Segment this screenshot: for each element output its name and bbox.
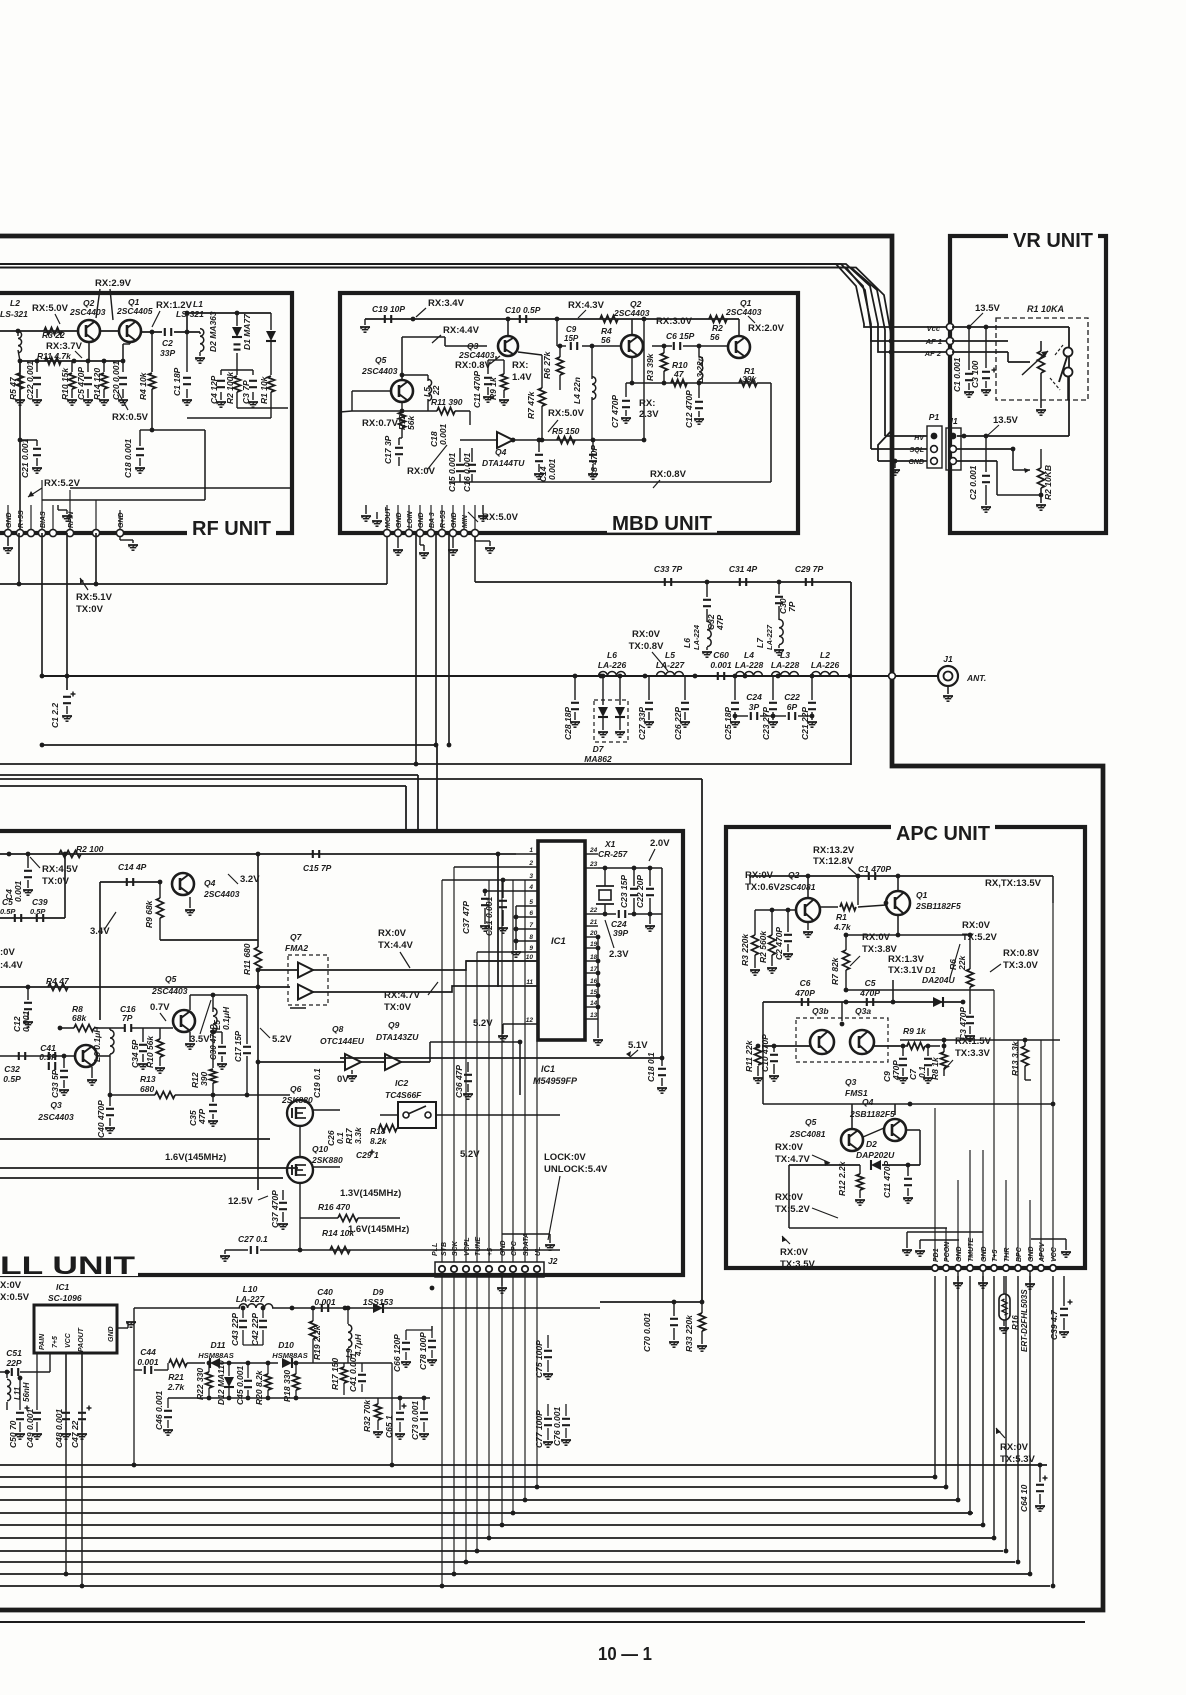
svg-text:C27 0.1: C27 0.1 bbox=[238, 1234, 268, 1244]
svg-text:R7 47k: R7 47k bbox=[526, 390, 536, 419]
svg-text:R14 120: R14 120 bbox=[92, 368, 102, 400]
svg-text:R13: R13 bbox=[140, 1074, 156, 1084]
svg-text:0.001: 0.001 bbox=[547, 458, 557, 480]
svg-text:R+5S: R+5S bbox=[440, 510, 447, 528]
svg-text:10: 10 bbox=[526, 954, 534, 961]
svg-text:C75 100P: C75 100P bbox=[534, 1340, 544, 1378]
svg-text:22P: 22P bbox=[5, 1358, 21, 1368]
svg-text:RX:0V: RX:0V bbox=[407, 466, 436, 477]
svg-text:C22: C22 bbox=[784, 692, 800, 702]
svg-text:R1 10KA: R1 10KA bbox=[1027, 304, 1064, 314]
svg-text:1.4V: 1.4V bbox=[512, 372, 532, 383]
svg-text:J2: J2 bbox=[548, 1256, 558, 1266]
svg-text:TX:12.8V: TX:12.8V bbox=[813, 856, 854, 867]
svg-text:C43 22P: C43 22P bbox=[230, 1313, 240, 1346]
svg-text:8: 8 bbox=[529, 934, 533, 941]
svg-text:12.5V: 12.5V bbox=[228, 1196, 253, 1207]
svg-text:RX:13.2V: RX:13.2V bbox=[813, 845, 855, 856]
svg-text:D9: D9 bbox=[373, 1287, 384, 1297]
svg-text:L4 22n: L4 22n bbox=[572, 377, 582, 404]
svg-text:R20 8.2k: R20 8.2k bbox=[254, 1369, 264, 1405]
svg-text:RX:0V: RX:0V bbox=[775, 1142, 804, 1153]
svg-text:LS-321: LS-321 bbox=[176, 309, 204, 319]
svg-text:HSM88AS: HSM88AS bbox=[198, 1351, 233, 1360]
svg-text:THR: THR bbox=[1004, 1248, 1011, 1262]
svg-text:RX:5.0V: RX:5.0V bbox=[32, 303, 69, 314]
svg-text:LOCK:0V: LOCK:0V bbox=[544, 1152, 586, 1163]
svg-text:C6: C6 bbox=[800, 978, 811, 988]
svg-text:Q2: Q2 bbox=[788, 870, 800, 880]
svg-text:PAIN: PAIN bbox=[39, 1333, 46, 1350]
svg-text:22: 22 bbox=[431, 385, 441, 396]
svg-text:2.3V: 2.3V bbox=[609, 949, 629, 960]
svg-text:13.5V: 13.5V bbox=[975, 303, 1000, 314]
svg-text:2SC4081: 2SC4081 bbox=[789, 1129, 826, 1139]
svg-text:RX:5.0V: RX:5.0V bbox=[482, 512, 519, 523]
svg-text:5.2V: 5.2V bbox=[473, 1018, 493, 1029]
svg-text:Q3: Q3 bbox=[845, 1077, 857, 1087]
svg-text:C48 0.001: C48 0.001 bbox=[54, 1409, 64, 1448]
svg-text:RF UNIT: RF UNIT bbox=[192, 518, 271, 540]
svg-text:LA-227: LA-227 bbox=[765, 624, 774, 650]
svg-text:C18 0.001: C18 0.001 bbox=[123, 439, 133, 478]
svg-text:IC1: IC1 bbox=[56, 1282, 70, 1292]
svg-text:Q3a: Q3a bbox=[855, 1006, 871, 1016]
svg-text::4.4V: :4.4V bbox=[0, 960, 23, 971]
svg-text:+5: +5 bbox=[487, 1248, 494, 1256]
svg-text:GND: GND bbox=[981, 1246, 988, 1262]
svg-text:2.7k: 2.7k bbox=[167, 1382, 186, 1392]
svg-text:C17 15P: C17 15P bbox=[234, 1030, 243, 1062]
svg-text:L5: L5 bbox=[665, 650, 675, 660]
svg-text:0.7V: 0.7V bbox=[150, 1002, 170, 1013]
svg-text:2.0V: 2.0V bbox=[650, 838, 670, 849]
svg-text:0.001: 0.001 bbox=[438, 423, 448, 445]
svg-text:680: 680 bbox=[140, 1084, 154, 1094]
svg-text:P1: P1 bbox=[929, 412, 940, 422]
svg-text:C4 12P: C4 12P bbox=[209, 375, 219, 404]
svg-text:39P: 39P bbox=[613, 928, 628, 938]
svg-text:R33 220k: R33 220k bbox=[684, 1314, 694, 1352]
svg-text:2: 2 bbox=[528, 860, 533, 867]
svg-text:L2: L2 bbox=[820, 650, 830, 660]
svg-text:TX:5.2V: TX:5.2V bbox=[775, 1204, 811, 1215]
svg-text:C37 470P: C37 470P bbox=[270, 1190, 280, 1228]
svg-text:C17 3P: C17 3P bbox=[383, 435, 393, 464]
svg-text:2SC4403: 2SC4403 bbox=[37, 1112, 74, 1122]
svg-text:22: 22 bbox=[589, 907, 598, 914]
svg-text:11: 11 bbox=[526, 979, 533, 986]
svg-text:T+5: T+5 bbox=[992, 1250, 999, 1262]
svg-text:AF 2: AF 2 bbox=[924, 349, 942, 358]
svg-text:RX:2.9V: RX:2.9V bbox=[95, 278, 132, 289]
svg-text:R16 470: R16 470 bbox=[318, 1202, 350, 1212]
svg-text:RX:0.7V: RX:0.7V bbox=[362, 418, 399, 429]
svg-text:8.2k: 8.2k bbox=[370, 1136, 388, 1146]
svg-text:10 — 1: 10 — 1 bbox=[598, 1644, 652, 1664]
svg-text:9: 9 bbox=[529, 945, 533, 952]
svg-text:56: 56 bbox=[601, 335, 611, 345]
svg-text:GND: GND bbox=[908, 459, 924, 466]
svg-text:LA-228: LA-228 bbox=[771, 660, 800, 670]
svg-text:R6 27k: R6 27k bbox=[542, 350, 552, 379]
svg-text:GND: GND bbox=[118, 512, 125, 528]
svg-text:D1: D1 bbox=[925, 965, 936, 975]
svg-text:LA-224: LA-224 bbox=[692, 624, 701, 650]
svg-text:MOUT: MOUT bbox=[385, 507, 392, 528]
svg-text:5: 5 bbox=[529, 899, 533, 906]
svg-text:0.5P: 0.5P bbox=[3, 1074, 21, 1084]
svg-text:7: 7 bbox=[529, 922, 533, 929]
svg-text:R9 68k: R9 68k bbox=[144, 899, 154, 928]
svg-text:CR-257: CR-257 bbox=[598, 849, 629, 859]
svg-text:SC-1096: SC-1096 bbox=[48, 1293, 82, 1303]
svg-text:R4 10k: R4 10k bbox=[138, 371, 148, 400]
svg-text:RX:0V: RX:0V bbox=[1000, 1442, 1029, 1453]
svg-text:RX:0V: RX:0V bbox=[862, 932, 891, 943]
svg-text:DTA143ZU: DTA143ZU bbox=[376, 1032, 419, 1042]
svg-text:RX:0.8V: RX:0.8V bbox=[1003, 948, 1040, 959]
svg-text:7P: 7P bbox=[787, 601, 797, 612]
svg-text:TUNE: TUNE bbox=[475, 1237, 482, 1256]
svg-text:DAP202U: DAP202U bbox=[856, 1150, 895, 1160]
svg-text:C10 0.5P: C10 0.5P bbox=[505, 305, 541, 315]
svg-text:R9 1k: R9 1k bbox=[488, 376, 498, 400]
svg-text:D11: D11 bbox=[211, 1340, 226, 1350]
svg-text:TX:0.8V: TX:0.8V bbox=[629, 641, 665, 652]
svg-text:C46 0.001: C46 0.001 bbox=[154, 1391, 164, 1430]
svg-text:3.3k: 3.3k bbox=[353, 1126, 363, 1144]
svg-text:R22 330: R22 330 bbox=[195, 1368, 205, 1400]
svg-text:DA204U: DA204U bbox=[922, 975, 955, 985]
svg-text:C5: C5 bbox=[865, 978, 876, 988]
svg-text:R9 1k: R9 1k bbox=[903, 1026, 927, 1036]
svg-text:2SC4081: 2SC4081 bbox=[779, 882, 816, 892]
svg-text:22k: 22k bbox=[957, 955, 967, 971]
svg-text:C14 4P: C14 4P bbox=[118, 862, 147, 872]
svg-text:R7 82k: R7 82k bbox=[830, 956, 840, 985]
svg-text:TX:3.3V: TX:3.3V bbox=[955, 1048, 991, 1059]
svg-text:PD1: PD1 bbox=[933, 1248, 940, 1262]
svg-text:2SC4403: 2SC4403 bbox=[203, 889, 240, 899]
svg-text:C51: C51 bbox=[6, 1348, 22, 1358]
svg-text:0.001: 0.001 bbox=[710, 660, 732, 670]
svg-text:LA-227: LA-227 bbox=[656, 660, 686, 670]
svg-text:R11 4.7k: R11 4.7k bbox=[37, 351, 72, 361]
svg-text:Vcc: Vcc bbox=[927, 324, 941, 333]
svg-text:0.001: 0.001 bbox=[314, 1297, 336, 1307]
svg-text:TX:3.0V: TX:3.0V bbox=[1003, 960, 1039, 971]
svg-text:R1: R1 bbox=[836, 912, 847, 922]
svg-text:5.2V: 5.2V bbox=[272, 1034, 292, 1045]
svg-text:7+5: 7+5 bbox=[52, 1336, 59, 1348]
svg-text:C76 0.001: C76 0.001 bbox=[552, 1407, 562, 1446]
svg-text:0.5P: 0.5P bbox=[30, 907, 46, 916]
svg-text:C39: C39 bbox=[32, 897, 48, 907]
svg-text:Q7: Q7 bbox=[290, 932, 303, 942]
svg-text:13.5V: 13.5V bbox=[993, 415, 1018, 426]
svg-text:56nH: 56nH bbox=[22, 1382, 31, 1402]
svg-text:M54959FP: M54959FP bbox=[533, 1076, 578, 1086]
svg-text:R2 10KB: R2 10KB bbox=[1043, 465, 1053, 500]
svg-text:LA-226: LA-226 bbox=[811, 660, 840, 670]
svg-text:C6 15P: C6 15P bbox=[666, 331, 695, 341]
svg-text:R32 70k: R32 70k bbox=[362, 1399, 372, 1432]
svg-text:C64 10: C64 10 bbox=[1019, 1484, 1029, 1512]
svg-text:LL UNIT: LL UNIT bbox=[0, 1252, 135, 1280]
svg-text:R5 150: R5 150 bbox=[552, 426, 580, 436]
svg-text:R12 2.2k: R12 2.2k bbox=[837, 1160, 847, 1196]
svg-text:2SC4403: 2SC4403 bbox=[613, 308, 650, 318]
svg-text:C73 0.001: C73 0.001 bbox=[410, 1401, 420, 1440]
svg-text:21: 21 bbox=[589, 919, 598, 926]
svg-text:2SC4405: 2SC4405 bbox=[116, 306, 153, 316]
svg-text:RX:0V: RX:0V bbox=[632, 629, 661, 640]
svg-text:C15 0.001: C15 0.001 bbox=[447, 453, 457, 492]
svg-text:RX:5.0V: RX:5.0V bbox=[548, 408, 585, 419]
svg-text:Q1: Q1 bbox=[916, 890, 928, 900]
svg-text:TMUTE: TMUTE bbox=[968, 1238, 975, 1262]
svg-text:L4: L4 bbox=[744, 650, 754, 660]
svg-text:L9: L9 bbox=[345, 1348, 354, 1358]
svg-text:RX:0.5V: RX:0.5V bbox=[112, 412, 149, 423]
svg-text:C29 1: C29 1 bbox=[356, 1150, 379, 1160]
svg-text:C11 470P: C11 470P bbox=[882, 1160, 892, 1198]
svg-text:HV: HV bbox=[914, 435, 925, 442]
svg-text:0.001: 0.001 bbox=[137, 1357, 159, 1367]
svg-text:47P: 47P bbox=[715, 615, 725, 631]
svg-text:IC2: IC2 bbox=[395, 1078, 409, 1088]
svg-text:2SC4403: 2SC4403 bbox=[69, 307, 106, 317]
svg-text:2SC4403: 2SC4403 bbox=[458, 350, 495, 360]
svg-text:R11 390: R11 390 bbox=[431, 397, 463, 407]
svg-text:C12 470P: C12 470P bbox=[684, 390, 694, 428]
svg-text:C2 470P: C2 470P bbox=[774, 927, 784, 960]
svg-text:C2: C2 bbox=[162, 338, 173, 348]
svg-text:C10 470P: C10 470P bbox=[760, 1034, 770, 1072]
svg-text:GND: GND bbox=[451, 512, 458, 528]
svg-text:TC4S66F: TC4S66F bbox=[385, 1090, 422, 1100]
svg-text:4.7μH: 4.7μH bbox=[354, 1334, 363, 1357]
svg-text:TX:4.4V: TX:4.4V bbox=[378, 940, 414, 951]
svg-text:RX,TX:13.5V: RX,TX:13.5V bbox=[985, 878, 1042, 889]
svg-text:R2 100: R2 100 bbox=[76, 844, 104, 854]
svg-text:13: 13 bbox=[590, 1012, 598, 1019]
svg-text:R14 10k: R14 10k bbox=[322, 1228, 355, 1238]
svg-text:1SS153: 1SS153 bbox=[363, 1297, 394, 1307]
svg-text:R10 56k: R10 56k bbox=[145, 1035, 155, 1068]
svg-text:1: 1 bbox=[529, 847, 533, 854]
svg-text:GND: GND bbox=[956, 1246, 963, 1262]
svg-text:SQL: SQL bbox=[910, 447, 924, 454]
svg-text:RX:3.0V: RX:3.0V bbox=[656, 316, 693, 327]
svg-text:AF 1: AF 1 bbox=[925, 337, 942, 346]
svg-text:LA-226: LA-226 bbox=[598, 660, 627, 670]
svg-text:5.1V: 5.1V bbox=[628, 1040, 648, 1051]
svg-text:C66 120P: C66 120P bbox=[392, 1334, 402, 1372]
svg-text:Q8: Q8 bbox=[332, 1024, 344, 1034]
svg-text:MIN: MIN bbox=[462, 514, 469, 528]
svg-text:D1 MA77: D1 MA77 bbox=[242, 313, 252, 350]
svg-text:Q3: Q3 bbox=[50, 1100, 62, 1110]
svg-text:D7: D7 bbox=[593, 744, 605, 754]
svg-text:33P: 33P bbox=[160, 348, 175, 358]
svg-text:C1 2.2: C1 2.2 bbox=[50, 703, 60, 728]
svg-text:VCPL: VCPL bbox=[464, 1237, 471, 1256]
svg-text:C77 100P: C77 100P bbox=[534, 1410, 544, 1448]
svg-text:GND: GND bbox=[108, 1326, 115, 1342]
svg-text:Q3b: Q3b bbox=[812, 1006, 829, 1016]
svg-text:D2 MA363: D2 MA363 bbox=[208, 311, 218, 352]
svg-text:PAOUT: PAOUT bbox=[78, 1327, 85, 1352]
svg-text:2SC4403: 2SC4403 bbox=[361, 366, 398, 376]
svg-text:TX:4.7V: TX:4.7V bbox=[775, 1154, 811, 1165]
svg-text:2SK880: 2SK880 bbox=[311, 1155, 343, 1165]
svg-text:UNLOCK:5.4V: UNLOCK:5.4V bbox=[544, 1164, 608, 1175]
svg-text:C37 47P: C37 47P bbox=[461, 901, 471, 934]
svg-text:MA862: MA862 bbox=[584, 754, 612, 764]
svg-text:SCK: SCK bbox=[452, 1240, 459, 1256]
svg-text:C21 0.001: C21 0.001 bbox=[20, 439, 30, 478]
svg-text:RX:3.4V: RX:3.4V bbox=[428, 298, 465, 309]
svg-text:GND: GND bbox=[1028, 1246, 1035, 1262]
svg-text:RX:0V: RX:0V bbox=[962, 920, 991, 931]
svg-text:L6: L6 bbox=[607, 650, 617, 660]
svg-text:Q4: Q4 bbox=[862, 1097, 874, 1107]
svg-text:RX:0.8V: RX:0.8V bbox=[650, 469, 687, 480]
svg-text:R+5S: R+5S bbox=[18, 510, 25, 528]
svg-text:RX:4.4V: RX:4.4V bbox=[443, 325, 480, 336]
svg-text:0.5P: 0.5P bbox=[0, 907, 16, 916]
svg-text:X:0.5V: X:0.5V bbox=[0, 1292, 30, 1303]
svg-text:Q5: Q5 bbox=[165, 974, 177, 984]
svg-text:C31 4P: C31 4P bbox=[729, 564, 758, 574]
svg-text:Q6: Q6 bbox=[290, 1084, 302, 1094]
svg-text:TX:0V: TX:0V bbox=[76, 604, 104, 615]
svg-text:56: 56 bbox=[710, 332, 720, 342]
svg-text:X1: X1 bbox=[604, 839, 616, 849]
svg-text:BIAS: BIAS bbox=[40, 511, 47, 528]
svg-text:C9: C9 bbox=[566, 325, 577, 334]
svg-text:LOIN: LOIN bbox=[407, 510, 414, 528]
svg-text:4.7k: 4.7k bbox=[833, 922, 852, 932]
svg-text:C24: C24 bbox=[746, 692, 762, 702]
svg-text:2.3V: 2.3V bbox=[639, 409, 659, 420]
svg-text:Q4: Q4 bbox=[204, 878, 216, 888]
svg-text:Q5: Q5 bbox=[805, 1117, 817, 1127]
svg-text:C11 470P: C11 470P bbox=[472, 370, 482, 408]
svg-text:L2: L2 bbox=[10, 298, 20, 308]
svg-text:FMA2: FMA2 bbox=[285, 943, 308, 953]
svg-text:56k: 56k bbox=[406, 415, 416, 430]
svg-text:R21: R21 bbox=[168, 1372, 184, 1382]
svg-text:RX:5.1V: RX:5.1V bbox=[76, 592, 113, 603]
svg-text:RX:4.7V: RX:4.7V bbox=[384, 990, 421, 1001]
svg-text:MBD UNIT: MBD UNIT bbox=[612, 513, 712, 535]
svg-text:GND: GND bbox=[6, 512, 13, 528]
svg-text:2SC4403: 2SC4403 bbox=[151, 986, 188, 996]
svg-text:C39 4.7: C39 4.7 bbox=[1049, 1309, 1059, 1340]
svg-text:VCC: VCC bbox=[1051, 1246, 1058, 1262]
svg-text:HSM88AS: HSM88AS bbox=[272, 1351, 307, 1360]
svg-text:C19 10P: C19 10P bbox=[372, 304, 405, 314]
svg-text:23: 23 bbox=[589, 861, 598, 868]
svg-text:VR UNIT: VR UNIT bbox=[1013, 230, 1093, 252]
svg-text:R8 1k: R8 1k bbox=[930, 1056, 940, 1080]
svg-text:3: 3 bbox=[529, 873, 533, 880]
svg-text:L1: L1 bbox=[193, 299, 203, 309]
svg-text:24: 24 bbox=[589, 847, 598, 854]
svg-text:RX:0V: RX:0V bbox=[378, 928, 407, 939]
svg-text:GND: GND bbox=[396, 512, 403, 528]
svg-text:GND: GND bbox=[500, 1240, 507, 1256]
svg-text:J1: J1 bbox=[943, 654, 953, 664]
svg-text:LS-321: LS-321 bbox=[0, 309, 28, 319]
svg-text:D2: D2 bbox=[866, 1139, 877, 1149]
svg-text:C7 470P: C7 470P bbox=[610, 395, 620, 428]
svg-text:X:0V: X:0V bbox=[0, 1280, 22, 1291]
svg-text:R2 560k: R2 560k bbox=[758, 930, 768, 963]
svg-text:DTA144TU: DTA144TU bbox=[482, 458, 525, 468]
svg-text:Q9: Q9 bbox=[388, 1020, 400, 1030]
svg-text:15P: 15P bbox=[564, 334, 579, 343]
svg-text:RX:0.8V: RX:0.8V bbox=[455, 360, 492, 371]
svg-text:TX:0V: TX:0V bbox=[384, 1002, 412, 1013]
svg-text:12: 12 bbox=[526, 1017, 534, 1024]
svg-text:C49 0.001: C49 0.001 bbox=[25, 1409, 35, 1448]
svg-text:R11 22k: R11 22k bbox=[744, 1039, 754, 1072]
svg-text:LA-228: LA-228 bbox=[735, 660, 764, 670]
svg-text:C23 15P: C23 15P bbox=[619, 875, 629, 908]
svg-text:R11 680: R11 680 bbox=[242, 943, 252, 975]
svg-text:C3 100: C3 100 bbox=[970, 360, 980, 388]
svg-text:PLL: PLL bbox=[432, 1243, 439, 1256]
svg-text:C19 0.1: C19 0.1 bbox=[312, 1068, 322, 1098]
svg-text:L10: L10 bbox=[243, 1284, 258, 1294]
svg-text:2SB1182F5: 2SB1182F5 bbox=[849, 1109, 895, 1119]
svg-text:C15 7P: C15 7P bbox=[303, 863, 332, 873]
svg-text:IC1: IC1 bbox=[541, 1064, 555, 1074]
svg-text:J1: J1 bbox=[948, 416, 958, 426]
svg-text:IC1: IC1 bbox=[551, 936, 566, 947]
svg-text:C33 7P: C33 7P bbox=[654, 564, 683, 574]
svg-text:0.1: 0.1 bbox=[917, 1066, 927, 1078]
svg-text:47P: 47P bbox=[197, 1109, 207, 1125]
svg-text:TX:3.5V: TX:3.5V bbox=[780, 1259, 816, 1270]
svg-text:1.6V(145MHz): 1.6V(145MHz) bbox=[348, 1224, 409, 1235]
svg-text:RX:4.3V: RX:4.3V bbox=[568, 300, 605, 311]
svg-text:C40 470P: C40 470P bbox=[96, 1100, 106, 1138]
svg-text:RX:0V: RX:0V bbox=[780, 1247, 809, 1258]
svg-text:470P: 470P bbox=[794, 988, 815, 998]
svg-text:R3 39k: R3 39k bbox=[645, 352, 655, 381]
svg-text:RX:: RX: bbox=[639, 398, 655, 409]
svg-text:C1 18P: C1 18P bbox=[172, 367, 182, 396]
svg-text:CPC: CPC bbox=[511, 1240, 518, 1256]
svg-text:Q5: Q5 bbox=[375, 355, 387, 365]
svg-text:L6: L6 bbox=[682, 638, 692, 648]
svg-text:ERT-D2FHL503S: ERT-D2FHL503S bbox=[1020, 1289, 1029, 1352]
svg-text:6: 6 bbox=[529, 910, 533, 917]
svg-text:1.6V(145MHz): 1.6V(145MHz) bbox=[165, 1152, 226, 1163]
svg-text:C78 100P: C78 100P bbox=[418, 1332, 428, 1370]
svg-text:C42 22P: C42 22P bbox=[250, 1313, 260, 1346]
svg-text:C5: C5 bbox=[2, 897, 13, 907]
svg-text:C36 47P: C36 47P bbox=[454, 1065, 464, 1098]
svg-text:R18 330: R18 330 bbox=[282, 1370, 292, 1402]
svg-text:C22 20P: C22 20P bbox=[635, 875, 645, 908]
svg-text:RX:4.5V: RX:4.5V bbox=[42, 864, 79, 875]
